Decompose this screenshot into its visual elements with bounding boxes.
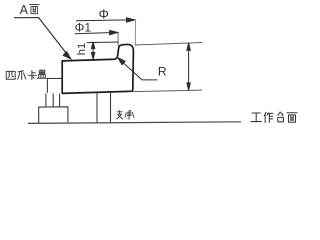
glyph mian (face) of A-face — [29, 5, 39, 14]
glyph zhi (support) — [117, 111, 123, 120]
worktable ground line — [28, 122, 241, 124]
chuck pedestal base — [39, 107, 68, 123]
svg-text:Φ1: Φ1 — [75, 21, 92, 35]
right height dimension arrow — [187, 43, 190, 91]
svg-text:h1: h1 — [76, 43, 88, 55]
glyph si (four) — [6, 71, 15, 79]
dimension phi line — [76, 18, 135, 22]
glyph tai (platform) — [278, 112, 284, 122]
glyph gong (work) — [251, 113, 261, 122]
label si-zhao-ka-pan (four-jaw chuck) — [6, 70, 46, 80]
label gong-zuo-tai-mian (worktable surface) — [251, 112, 297, 122]
right height dimension extension top — [135, 43, 202, 46]
svg-text:R: R — [158, 65, 167, 79]
glyph zhao (claw) — [18, 71, 26, 80]
svg-text:Φ: Φ — [99, 7, 109, 22]
glyph cheng (bear) — [125, 111, 134, 119]
phi1 extension line — [117, 33, 119, 47]
leader underline of A-face — [14, 17, 39, 19]
phi extension line — [134, 19, 136, 45]
dimension phi1 line — [75, 30, 118, 34]
chuck jaw lower block — [46, 94, 60, 108]
right height dimension extension bottom — [134, 90, 202, 92]
glyph ka (card) — [28, 71, 37, 80]
h1 top extension line — [87, 41, 119, 44]
workpiece body outline — [62, 44, 133, 93]
chuck jaw upper block — [47, 78, 61, 93]
glyph mian (surface) — [287, 113, 297, 123]
leader arrow to surface — [39, 18, 71, 59]
R leader arrow — [118, 58, 158, 80]
label zhi-cheng (support) — [117, 111, 134, 120]
support column — [97, 92, 111, 123]
glyph pan (chuck/plate) — [37, 70, 46, 79]
glyph zuo (do) — [264, 112, 273, 122]
svg-text:A: A — [20, 3, 29, 17]
dimension h1 arrow — [91, 42, 94, 60]
